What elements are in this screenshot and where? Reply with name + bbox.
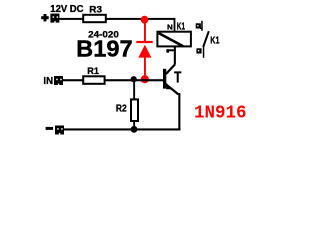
- svg-text:1N916: 1N916: [194, 104, 247, 124]
- wire junction down to R2: [133, 80, 135, 100]
- node junction base (red): [141, 75, 149, 83]
- resistor R3: [83, 15, 106, 22]
- terminal +12V: [50, 14, 59, 23]
- transistor T base bar: [163, 69, 166, 89]
- relay contact top lead: [201, 21, 203, 31]
- svg-text:K1: K1: [210, 34, 219, 46]
- wire red: diode anode down to node: [144, 57, 146, 76]
- resistor R1: [83, 76, 104, 84]
- wire corner down to relay coil: [174, 18, 176, 31]
- node junction R2 top (black): [131, 76, 137, 82]
- relay contact top lead foot: [200, 28, 202, 30]
- wire R3 to corner: [106, 18, 175, 20]
- transistor emitter arrowhead: [166, 83, 172, 90]
- relay contact blade: [203, 31, 209, 47]
- svg-text:12V DC: 12V DC: [50, 4, 83, 15]
- svg-text:R1: R1: [87, 66, 99, 76]
- diode D1 triangle (red): [138, 45, 151, 58]
- diode D1 cathode bar (red): [136, 41, 152, 43]
- svg-text:IN: IN: [43, 76, 53, 87]
- relay coil K1 box: [157, 32, 191, 47]
- node junction rail (black): [131, 126, 138, 133]
- relay contact bottom lead: [203, 46, 205, 58]
- svg-text:K1: K1: [177, 22, 186, 33]
- terminal IN: [54, 76, 63, 85]
- wire relay bottom pin / collector: [174, 47, 176, 65]
- svg-text:R3: R3: [89, 5, 102, 15]
- wire bottom rail: [64, 128, 181, 130]
- transistor collector diagonal: [166, 64, 175, 74]
- wire red: junction down to diode cathode: [144, 21, 146, 42]
- svg-text:N: N: [167, 22, 173, 31]
- wire emitter down to rail: [178, 93, 180, 131]
- resistor R2: [131, 99, 138, 121]
- plus sign: [41, 14, 49, 21]
- wire R2 to rail: [133, 121, 135, 130]
- svg-text:R2: R2: [116, 102, 127, 114]
- wire terminal+ to R3: [59, 18, 83, 20]
- relay contact bottom terminal: [196, 48, 201, 53]
- coil minus tick: [166, 49, 174, 52]
- svg-text:B197: B197: [76, 36, 133, 62]
- relay contact top terminal: [196, 23, 201, 28]
- minus sign: [46, 127, 54, 130]
- terminal minus: [55, 126, 64, 135]
- wire IN to R1: [63, 79, 84, 81]
- relay coil diagonal: [159, 33, 184, 46]
- wire R1 to base: [105, 79, 163, 81]
- node junction top (red): [141, 16, 149, 24]
- svg-text:T: T: [174, 69, 181, 86]
- transistor emitter diagonal: [166, 85, 178, 95]
